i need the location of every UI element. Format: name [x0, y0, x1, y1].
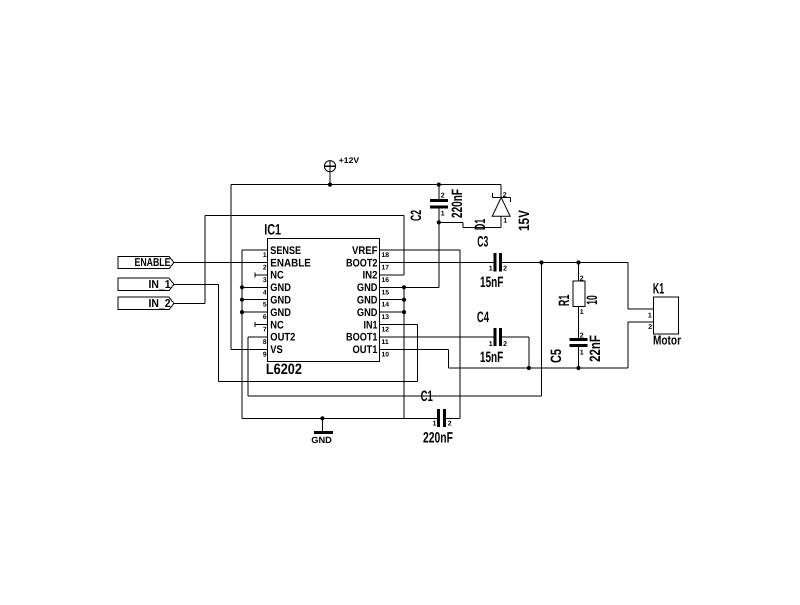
svg-text:1: 1 — [263, 252, 267, 259]
svg-text:+12V: +12V — [339, 156, 360, 165]
wire C5 bottom — [578, 347, 580, 368]
svg-text:5: 5 — [263, 302, 267, 309]
connector K1 Motor — [654, 297, 679, 334]
svg-text:GND: GND — [270, 295, 291, 307]
wire GND pin 6 stub — [242, 311, 268, 313]
svg-text:ENABLE: ENABLE — [135, 257, 171, 269]
svg-text:GND: GND — [270, 282, 291, 294]
svg-text:8: 8 — [263, 339, 267, 346]
diode D1 zener 15V — [492, 185, 510, 217]
wire C4 right to OUT1 net — [502, 337, 529, 368]
svg-text:IC1: IC1 — [264, 222, 281, 239]
op-amp/IC IC1 L6202 body — [268, 238, 380, 361]
wire IN_2 route over top to pin 16 — [174, 216, 404, 304]
svg-text:22nF: 22nF — [587, 335, 604, 362]
svg-text:4: 4 — [263, 289, 267, 296]
wire GND bottom rail — [242, 417, 437, 419]
junction GND pin 6 — [240, 310, 244, 314]
wire GND pin 5 stub — [242, 299, 268, 301]
svg-text:1: 1 — [648, 312, 652, 319]
wire GND pin 14 stub — [379, 299, 404, 301]
wire C2 top — [438, 185, 440, 200]
svg-text:GND: GND — [357, 295, 378, 307]
wire R1 bottom to C5 — [578, 307, 580, 338]
wire BOOT2 pin 17 to C3 — [379, 262, 493, 264]
capacitor C3 15nF — [493, 253, 502, 271]
svg-text:Motor: Motor — [653, 333, 681, 348]
svg-text:IN_1: IN_1 — [149, 279, 172, 291]
pin 7 NC stub — [255, 322, 267, 327]
junction GND pin 13 — [402, 310, 406, 314]
wire GND pin 4 stub — [242, 286, 268, 288]
svg-text:GND: GND — [270, 307, 291, 319]
wire VS vertical (+12V to pin 9) — [231, 185, 268, 350]
wire K1 pin 1 from C3 net — [628, 263, 653, 309]
wire C3 right to R1/K1 net — [502, 262, 628, 264]
IC1 pin numbers 1-9 — [263, 252, 267, 358]
svg-text:GND: GND — [311, 435, 332, 445]
svg-text:15: 15 — [382, 289, 390, 296]
wire OUT1 pin 10 route — [379, 322, 653, 368]
IC1 pin numbers 18-10 — [382, 252, 390, 358]
connector ENABLE — [118, 256, 174, 268]
junction GND pin 5 — [240, 298, 244, 302]
svg-text:12: 12 — [382, 327, 390, 334]
junction +12V on bus — [328, 183, 332, 187]
IC1 right pin names — [346, 245, 378, 356]
svg-text:13: 13 — [382, 314, 390, 321]
svg-text:VREF: VREF — [352, 245, 378, 257]
junction C2 bottom — [437, 220, 441, 224]
svg-text:GND: GND — [357, 282, 378, 294]
svg-text:VS: VS — [270, 344, 283, 356]
junction C3 net at R1 top — [576, 260, 580, 264]
svg-text:220nF: 220nF — [449, 189, 466, 218]
svg-text:2: 2 — [263, 265, 267, 272]
svg-text:SENSE: SENSE — [270, 245, 301, 257]
svg-text:1: 1 — [580, 309, 584, 316]
ground symbol GND — [314, 418, 333, 434]
svg-text:C4: C4 — [477, 309, 490, 326]
capacitor C2 — [430, 199, 448, 208]
svg-text:15V: 15V — [516, 210, 533, 231]
wire IN_1 route — [174, 284, 219, 381]
junction GND pin 14 — [402, 298, 406, 302]
svg-text:2: 2 — [580, 332, 584, 339]
junction C2 top on bus — [437, 183, 441, 187]
svg-text:9: 9 — [263, 351, 267, 358]
svg-text:1: 1 — [489, 341, 493, 348]
wire C2 bottom to D1 anode — [439, 208, 501, 227]
svg-text:C1: C1 — [421, 388, 433, 405]
wire GND pin 13 stub — [379, 311, 404, 313]
wire SENSE pin 1 to GND column — [242, 250, 268, 418]
svg-text:BOOT2: BOOT2 — [346, 257, 378, 269]
svg-text:IN_2: IN_2 — [149, 298, 171, 310]
svg-text:C2: C2 — [408, 210, 425, 221]
svg-text:2: 2 — [648, 324, 652, 331]
svg-text:1: 1 — [503, 217, 507, 224]
junction GND pin 15 — [402, 285, 406, 289]
wire BOOT1 pin 11 to C4 — [379, 336, 493, 338]
connector IN_2 — [118, 297, 174, 309]
svg-text:10: 10 — [382, 351, 390, 358]
junction GND stub — [320, 416, 324, 420]
svg-text:1: 1 — [489, 265, 493, 272]
svg-text:6: 6 — [263, 314, 267, 321]
IC1 left pin names — [270, 245, 311, 356]
wire R1 top — [578, 263, 580, 282]
svg-text:15nF: 15nF — [480, 349, 503, 366]
svg-text:3: 3 — [263, 277, 267, 284]
svg-text:NC: NC — [270, 270, 284, 282]
pin 3 NC stub — [255, 272, 267, 277]
junction C5 bottom on OUT1 net — [576, 366, 580, 370]
svg-text:GND: GND — [357, 307, 378, 319]
capacitor C1 220nF — [437, 409, 446, 427]
svg-text:1: 1 — [441, 210, 445, 217]
capacitor C4 15nF — [493, 328, 502, 346]
svg-text:16: 16 — [382, 277, 390, 284]
svg-text:OUT1: OUT1 — [353, 344, 378, 356]
svg-text:2: 2 — [441, 193, 445, 200]
wire VREF pin 18 route — [379, 250, 460, 418]
svg-text:L6202: L6202 — [266, 361, 302, 378]
svg-text:1: 1 — [432, 420, 436, 427]
power symbol +12V — [324, 161, 335, 185]
svg-text:R1: R1 — [556, 295, 573, 306]
wire IN1 pin 12 route — [219, 325, 418, 382]
svg-text:2: 2 — [503, 192, 507, 199]
svg-text:10: 10 — [584, 295, 601, 305]
svg-text:18: 18 — [382, 252, 390, 259]
svg-text:14: 14 — [382, 302, 390, 309]
svg-text:BOOT1: BOOT1 — [346, 332, 378, 344]
svg-text:17: 17 — [382, 265, 390, 272]
svg-text:IN2: IN2 — [363, 270, 378, 282]
svg-text:C5: C5 — [548, 349, 565, 363]
resistor R1 10 — [573, 281, 585, 307]
svg-text:D1: D1 — [472, 219, 489, 230]
junction GND pin 4 — [240, 285, 244, 289]
svg-text:2: 2 — [503, 341, 507, 348]
svg-text:K1: K1 — [653, 281, 664, 298]
svg-text:220nF: 220nF — [423, 430, 453, 447]
wire ENABLE to pin 2 — [174, 262, 268, 264]
svg-text:7: 7 — [263, 327, 267, 334]
wire right GND column down — [403, 287, 405, 418]
svg-text:2: 2 — [448, 420, 452, 427]
svg-text:IN1: IN1 — [364, 319, 378, 331]
connector IN_1 — [118, 278, 174, 290]
svg-text:1: 1 — [580, 350, 584, 357]
wire +12V top bus — [231, 184, 501, 186]
svg-text:ENABLE: ENABLE — [270, 257, 311, 269]
svg-text:OUT2: OUT2 — [270, 332, 295, 344]
junction C4 at OUT1 net — [527, 366, 531, 370]
svg-text:11: 11 — [382, 339, 389, 346]
wire OUT2 pin 8 route — [248, 263, 542, 396]
capacitor C5 22nF — [569, 338, 587, 347]
svg-text:C3: C3 — [477, 234, 488, 251]
svg-text:2: 2 — [503, 265, 507, 272]
junction C3 net at OUT2 riser — [539, 260, 543, 264]
svg-text:15nF: 15nF — [480, 274, 503, 291]
wire GND pin 15 to C2 bottom column — [379, 222, 439, 287]
svg-text:NC: NC — [270, 319, 284, 331]
svg-text:2: 2 — [580, 275, 584, 282]
